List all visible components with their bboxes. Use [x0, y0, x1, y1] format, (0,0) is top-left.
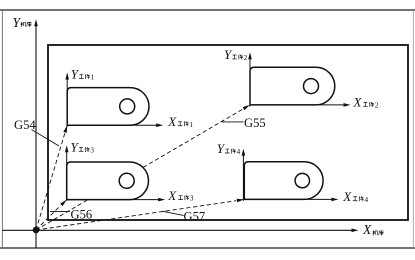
svg-text:2: 2	[375, 101, 379, 110]
svg-text:3: 3	[190, 194, 194, 203]
workpiece 2 X axis	[250, 103, 351, 107]
svg-text:3: 3	[90, 146, 94, 155]
label X workpiece1	[167, 114, 193, 129]
svg-text:X: X	[342, 189, 352, 204]
hole of workpiece 4	[295, 173, 309, 187]
machine origin dot	[33, 227, 40, 234]
workpiece 2 Y axis	[248, 52, 252, 106]
svg-text:X: X	[362, 222, 372, 237]
dashed line G54 (origin to workpiece1 origin)	[36, 125, 67, 230]
svg-text:X: X	[353, 95, 363, 110]
dashed line G55 (origin to workpiece2 origin)	[36, 105, 250, 230]
G55 leader line	[222, 121, 243, 123]
label Y workpiece2	[224, 47, 248, 62]
label Y machine	[13, 15, 32, 30]
svg-text:1: 1	[91, 73, 95, 82]
workpiece 1 X axis	[67, 123, 163, 127]
G57 leader line	[162, 211, 184, 215]
workpiece 3 X axis	[67, 198, 166, 202]
machine X axis	[2, 229, 358, 233]
workpiece 4 plate	[244, 162, 323, 200]
label Y workpiece4	[217, 141, 241, 156]
label Y workpiece1	[71, 67, 95, 82]
dashed line G56 (origin to workpiece3 origin)	[36, 200, 67, 230]
label X workpiece2	[353, 95, 379, 110]
label Y workpiece3	[71, 140, 95, 155]
svg-text:4: 4	[364, 195, 368, 204]
workpiece 3 plate	[67, 162, 149, 200]
machine table rectangle	[48, 45, 408, 220]
hole of workpiece 2	[304, 79, 319, 94]
hole of workpiece 1	[120, 99, 135, 114]
workpiece 4 Y axis	[242, 149, 246, 201]
frame bottom line	[0, 247, 415, 249]
label X workpiece4	[342, 189, 368, 204]
machine Y axis	[34, 19, 38, 248]
G56 leader line	[50, 211, 70, 213]
workpiece 1 plate	[67, 88, 149, 126]
frame left line	[1, 10, 3, 248]
frame top line	[0, 9, 415, 11]
svg-text:G56: G56	[71, 207, 93, 221]
frame right line	[412, 10, 414, 248]
svg-text:2: 2	[244, 53, 248, 62]
workpiece 2 plate	[250, 67, 335, 105]
workpiece 1 Y axis	[65, 73, 69, 128]
workpiece 3 Y axis	[65, 145, 69, 201]
svg-text:G55: G55	[244, 116, 266, 130]
G54 leader line	[32, 130, 60, 147]
svg-text:1: 1	[189, 120, 193, 129]
svg-text:G57: G57	[184, 209, 206, 223]
hole of workpiece 3	[119, 173, 134, 188]
label X machine	[362, 222, 384, 237]
dashed line G57 (origin to workpiece4 origin)	[36, 199, 244, 230]
svg-text:4: 4	[237, 147, 241, 156]
label X workpiece3	[167, 188, 194, 203]
workpiece 4 X axis	[244, 198, 338, 202]
svg-text:X: X	[167, 114, 177, 129]
svg-text:X: X	[167, 188, 177, 203]
